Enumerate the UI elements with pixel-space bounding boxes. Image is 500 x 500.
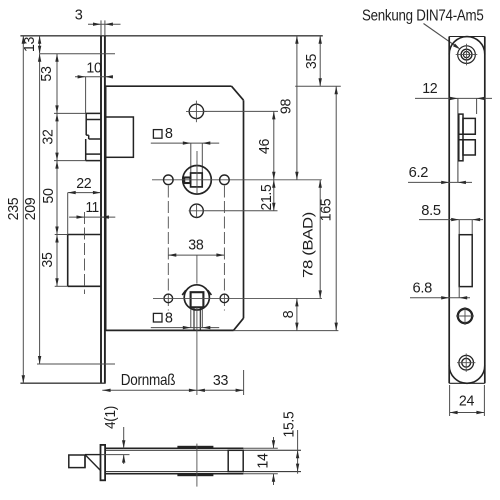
face plate bottom edge + extension [20,382,105,384]
dimension 6.2 [408,165,472,184]
svg-text:3: 3 [75,8,83,24]
bottom view centre line [196,444,198,487]
dimension 11 [69,200,115,219]
deadbolt dashed centre line [84,212,86,294]
leader arrow to countersink [424,24,461,50]
lock case top-right chamfer [232,86,244,100]
svg-text:98: 98 [279,99,295,114]
latch bolt top edge + extension line 32 [54,112,101,114]
face plate top edge + extension lines [20,35,322,37]
left guide hole upper [164,175,174,185]
lock case bottom extension line [234,330,339,332]
bottom view case top edge [105,448,301,450]
dimension 22 [68,176,101,194]
dimension 13 [22,36,41,54]
top fixing hole [186,101,207,123]
vertical centre line through follower [196,151,198,195]
bottom view case bottom edge [105,472,301,474]
latch bolt head lines [86,113,101,160]
follower square spindle hole [191,173,203,187]
privacy hub circle [184,285,209,310]
lock case top edge [106,85,232,87]
dimension 78 BAD [300,180,322,299]
bottom view cover bar bottom [178,474,213,476]
dashed centre line left [167,186,169,311]
bottom view latch head [69,455,101,471]
dimension 8.5 [419,203,483,235]
dimension square-8 lower [151,309,219,329]
bottom view cover bar top [178,446,213,448]
svg-text:14: 14 [256,453,272,468]
dimension 33 [197,370,244,395]
dimension 35 left [40,235,59,287]
right guide hole upper [220,175,230,185]
follower catch detail [184,178,190,184]
svg-text:12: 12 [422,81,437,97]
dimension 50 [41,161,59,235]
latch guide box inside case [106,117,134,157]
front plate top edge [449,36,485,38]
svg-text:38: 38 [188,238,203,254]
front plate bottom edge [449,382,485,384]
square-8 lower symbol [153,310,173,326]
dimension 10 [75,60,113,113]
latch cutout left edge [457,98,459,182]
svg-text:35: 35 [40,252,56,267]
svg-text:Senkung DIN74-Am5: Senkung DIN74-Am5 [362,8,484,25]
middle screw hole [456,307,474,325]
dimension 98 [279,36,299,180]
svg-text:46: 46 [257,139,273,154]
bottom countersunk screw hole [457,354,475,372]
extension line 53 top [40,53,115,55]
svg-text:8: 8 [165,126,173,142]
right guide hole lower [220,294,229,303]
dashed centre line right [223,186,225,311]
label Senkung DIN74-Am5 [362,8,484,25]
front plate left edge [448,37,450,384]
svg-text:15.5: 15.5 [281,411,297,437]
latch cutout right extension [476,98,478,114]
left guide hole lower [164,294,173,303]
dimension 12 [415,81,492,100]
dimension 24 [450,385,485,416]
svg-text:50: 50 [41,188,57,203]
front plate bottom radius [449,366,485,384]
latch bolt bottom edge + extension line 32 [54,160,101,162]
privacy hub neck lines [194,307,200,330]
dimension 14 [243,437,277,485]
svg-text:165: 165 [319,198,335,221]
dimension 3 [75,8,121,36]
follower hub circle [183,166,212,195]
svg-text:6.8: 6.8 [413,281,433,297]
bottom view case end box [228,450,243,471]
dimension 209 [23,54,115,364]
svg-text:8.5: 8.5 [421,203,441,219]
svg-text:6.2: 6.2 [409,165,429,181]
dimension 32 [41,113,59,160]
front plate right edge [484,37,486,384]
svg-text:24: 24 [459,394,474,410]
deadbolt cutout front view [459,235,472,287]
svg-text:11: 11 [85,200,99,216]
front plate top radius [449,37,485,55]
dimension 15.5 [281,411,299,473]
svg-text:209: 209 [23,197,39,220]
privacy hub ears [182,290,211,295]
deadbolt box extension lines [55,193,68,287]
dimension 21.5 [259,180,275,211]
bottom view face plate section [101,445,106,480]
svg-text:Dornmaß: Dornmaß [121,372,176,389]
follower horizontal centre line [152,179,322,181]
svg-text:32: 32 [41,129,57,144]
lock case left edge [105,86,107,330]
svg-text:22: 22 [76,176,91,192]
dimension 8 right [281,298,298,330]
svg-text:10: 10 [86,60,101,76]
lock case bottom-right chamfer [234,318,244,330]
face plate side view [101,36,105,383]
cylinder hole centre extension line [204,210,278,212]
svg-text:235: 235 [6,197,22,220]
dimension 165 [319,86,338,330]
dimension 53 [39,54,59,114]
dimension 4(1) [101,406,130,464]
svg-text:33: 33 [213,373,228,389]
svg-text:4(1): 4(1) [103,406,119,429]
lock top extension line right [295,85,341,87]
dimension 6.8 [410,281,470,300]
dimension 38 [168,238,224,257]
svg-text:53: 53 [39,66,55,81]
dimension 46 [257,111,275,179]
vertical centre line through privacy hub [196,255,198,395]
top hole centre extension line [204,110,278,112]
dimension 35 top right [304,36,322,86]
privacy hub horizontal centre line [153,297,322,299]
svg-text:13: 13 [22,37,38,52]
svg-text:21.5: 21.5 [259,184,275,210]
svg-text:78 (BAD): 78 (BAD) [300,212,316,278]
dimension square-8 upper [151,141,219,172]
square-8 upper symbol [153,126,173,142]
privacy hub square [191,292,204,307]
cylinder fixing hole [189,204,204,218]
lock case right edge [243,100,245,318]
svg-text:35: 35 [304,54,320,69]
latch front view [459,114,476,161]
deadbolt box [68,235,101,287]
svg-text:8: 8 [165,310,173,326]
dimension 235 [6,36,25,383]
dimension Dornmass [102,372,243,392]
top countersunk screw hole [456,44,478,66]
lock case bottom edge [106,329,234,331]
svg-text:8: 8 [281,310,297,318]
